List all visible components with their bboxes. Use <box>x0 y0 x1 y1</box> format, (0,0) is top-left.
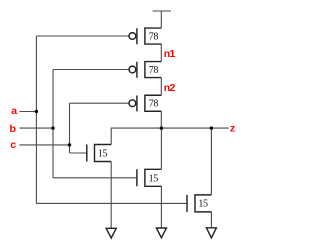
svg-text:15: 15 <box>198 199 208 210</box>
svg-text:n2: n2 <box>164 82 176 94</box>
svg-text:c: c <box>10 139 16 151</box>
svg-text:n1: n1 <box>164 48 176 60</box>
svg-text:15: 15 <box>149 174 159 185</box>
svg-text:z: z <box>230 123 235 135</box>
svg-text:78: 78 <box>149 32 159 43</box>
svg-text:b: b <box>10 123 16 135</box>
svg-text:a: a <box>11 105 17 117</box>
svg-text:78: 78 <box>149 99 159 110</box>
svg-text:78: 78 <box>149 65 159 76</box>
svg-text:15: 15 <box>98 149 108 160</box>
